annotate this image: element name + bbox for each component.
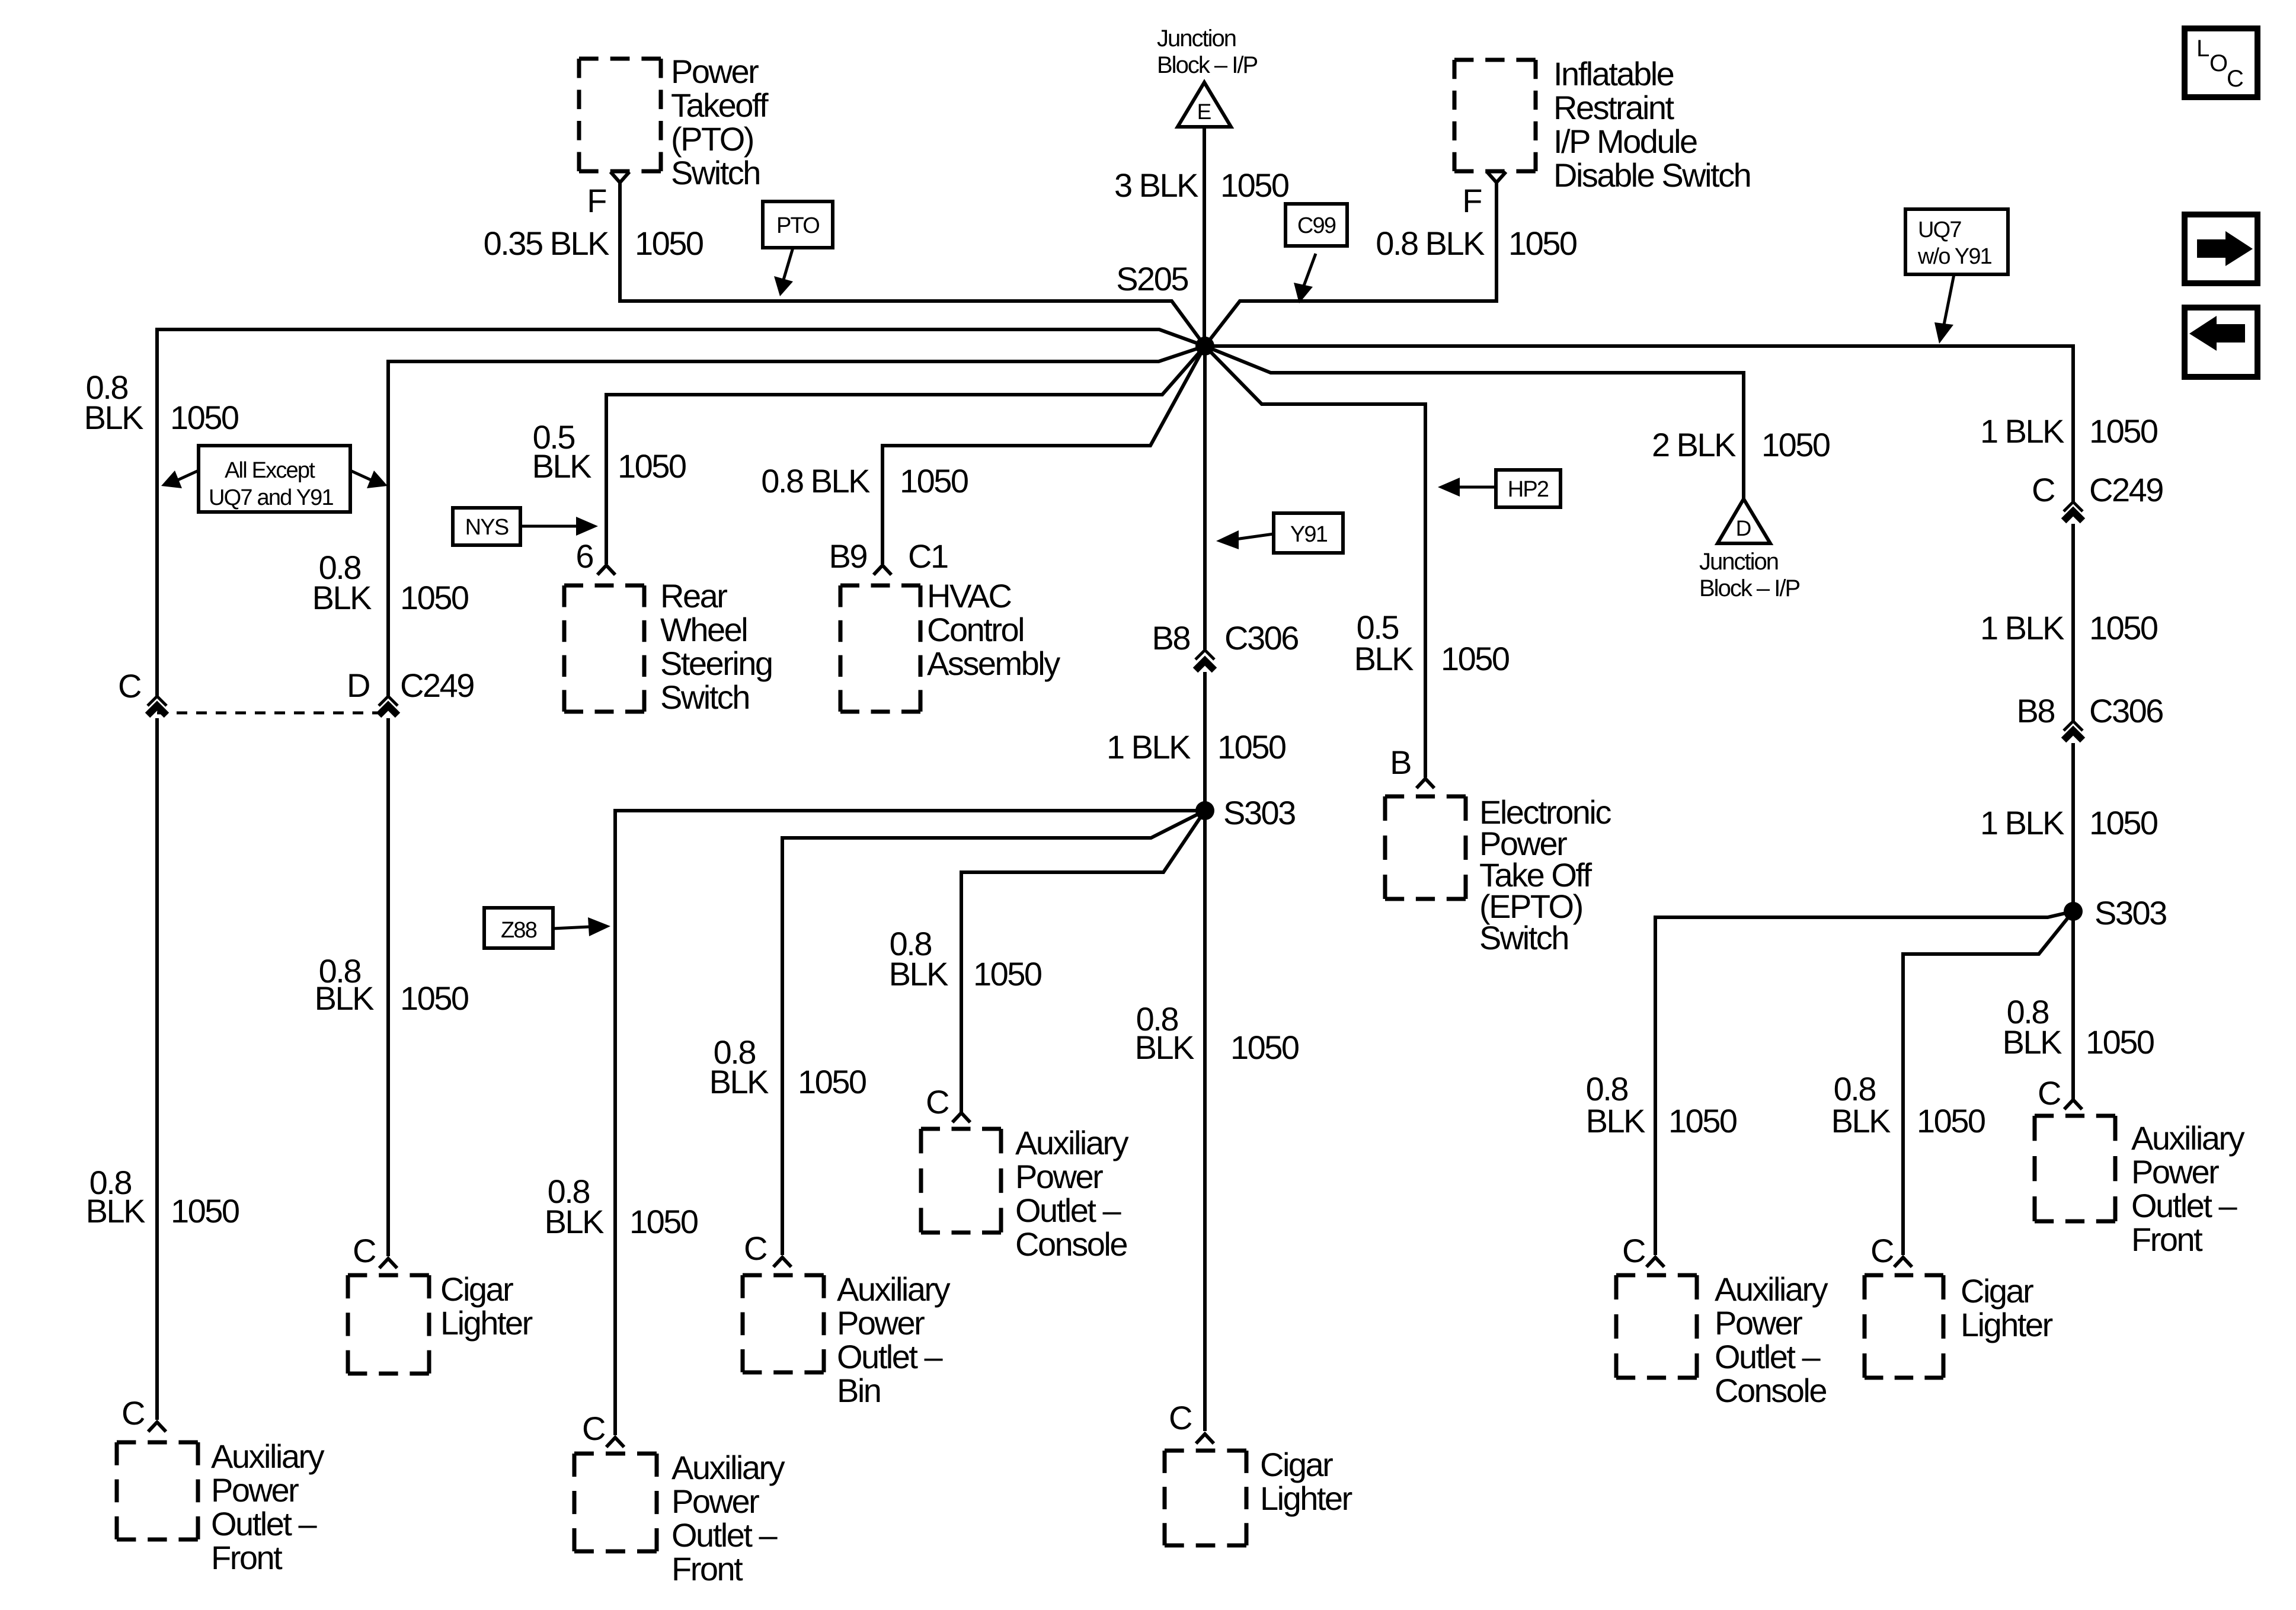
svg-text:L: L xyxy=(2196,36,2209,62)
svg-text:HP2: HP2 xyxy=(1508,477,1549,502)
svg-text:C: C xyxy=(2038,1074,2061,1112)
svg-text:Steering: Steering xyxy=(660,645,772,682)
wire C249-C down to aux power outlet front (0.8 BLK 1050) xyxy=(155,718,159,1420)
svg-text:D: D xyxy=(347,667,369,704)
wire C306 to S303 (1 BLK 1050, right) xyxy=(2071,743,2075,911)
svg-text:NYS: NYS xyxy=(465,515,509,540)
wire S303 right to cigar lighter (0.8 BLK 1050) xyxy=(1903,911,2073,1255)
svg-text:Inflatable: Inflatable xyxy=(1553,55,1674,92)
cigar lighter (right, dashed box) xyxy=(1865,1275,1943,1378)
auxiliary power outlet - bin (dashed box) xyxy=(743,1275,824,1372)
svg-text:Cigar: Cigar xyxy=(1260,1446,1333,1483)
label Z88 with arrow xyxy=(484,908,610,948)
svg-text:Power: Power xyxy=(837,1304,925,1342)
svg-text:C306: C306 xyxy=(2089,692,2163,729)
svg-text:C: C xyxy=(118,667,141,705)
svg-text:Auxiliary: Auxiliary xyxy=(671,1449,785,1486)
label PTO with arrow xyxy=(763,201,833,296)
wire S303 center to aux power outlet bin (0.8 BLK 1050) xyxy=(782,811,1205,1255)
svg-text:1050: 1050 xyxy=(635,225,703,262)
svg-text:Console: Console xyxy=(1015,1225,1127,1263)
junction block symbol D (triangle) xyxy=(1718,499,1770,543)
svg-text:S303: S303 xyxy=(2094,894,2166,932)
svg-text:B: B xyxy=(1390,744,1411,781)
svg-text:Bin: Bin xyxy=(837,1372,880,1409)
svg-text:C: C xyxy=(121,1394,145,1432)
svg-text:C249: C249 xyxy=(2089,471,2163,508)
svg-text:2 BLK: 2 BLK xyxy=(1652,426,1736,463)
wire S205 to connector C249 C (0.8 BLK 1050, far left) xyxy=(157,329,1205,696)
label HP2 with arrow xyxy=(1438,470,1560,507)
component label Auxiliary Power Outlet - Front (right) xyxy=(2131,1119,2245,1258)
connector chevron at HVAC control assembly xyxy=(874,565,891,575)
wire S303 down to cigar lighter (0.8 BLK 1050) xyxy=(1203,811,1207,1431)
svg-text:Auxiliary: Auxiliary xyxy=(837,1270,951,1308)
svg-text:BLK: BLK xyxy=(312,579,372,616)
svg-text:1050: 1050 xyxy=(2086,1023,2154,1061)
wire S205 down to connector C306 (1 BLK 1050) xyxy=(1203,346,1207,649)
value label 0.8 BLK (bin) xyxy=(709,1033,769,1100)
svg-text:O: O xyxy=(2209,50,2227,76)
svg-text:C99: C99 xyxy=(1297,213,1336,238)
connector chevron at EPTO switch xyxy=(1416,779,1434,788)
svg-text:Power: Power xyxy=(1715,1304,1802,1342)
svg-text:C: C xyxy=(582,1410,605,1447)
svg-text:Assembly: Assembly xyxy=(927,645,1060,682)
svg-text:Console: Console xyxy=(1715,1372,1826,1409)
svg-text:Switch: Switch xyxy=(1479,919,1568,956)
svg-text:Wheel: Wheel xyxy=(660,611,747,648)
svg-text:1050: 1050 xyxy=(629,1203,698,1240)
svg-text:C: C xyxy=(353,1232,376,1269)
svg-text:F: F xyxy=(1462,182,1481,219)
component label Auxiliary Power Outlet - Front (left) xyxy=(211,1438,325,1576)
svg-text:Power: Power xyxy=(1015,1158,1103,1195)
wire S205 to right column C249 (1 BLK 1050) xyxy=(1205,346,2073,502)
wire S205 to inflatable restraint disable switch (0.8 BLK 1050) xyxy=(1205,182,1496,346)
svg-text:w/o Y91: w/o Y91 xyxy=(1917,244,1992,269)
dashed link between C and D of C249 xyxy=(157,712,388,715)
svg-text:I/P Module: I/P Module xyxy=(1553,123,1697,160)
svg-text:Switch: Switch xyxy=(660,678,749,716)
svg-text:Switch: Switch xyxy=(671,154,760,191)
wire S205 to HVAC control assembly (0.8 BLK 1050) xyxy=(882,346,1205,564)
cigar lighter (left, dashed box) xyxy=(348,1275,429,1374)
svg-text:1050: 1050 xyxy=(973,955,1041,993)
value label 0.8 BLK (cigar right) xyxy=(1831,1070,1891,1140)
svg-text:Front: Front xyxy=(2131,1221,2203,1258)
component label Power Takeoff (PTO) Switch xyxy=(671,53,769,191)
svg-text:Outlet –: Outlet – xyxy=(1015,1192,1121,1229)
connector chevron at rear wheel steering switch xyxy=(597,565,615,575)
svg-text:Outlet –: Outlet – xyxy=(211,1505,317,1542)
svg-text:1050: 1050 xyxy=(1508,225,1576,262)
component label Inflatable Restraint I/P Module Disable Switch xyxy=(1553,55,1750,194)
svg-text:UQ7: UQ7 xyxy=(1918,217,1961,242)
svg-text:Power: Power xyxy=(2131,1153,2219,1190)
svg-text:Power: Power xyxy=(671,53,759,90)
svg-text:C: C xyxy=(926,1083,949,1121)
svg-text:Power: Power xyxy=(671,1483,759,1520)
wire S303 center to aux power outlet front (0.8 BLK 1050) xyxy=(615,811,1205,1435)
value label 0.8 BLK (console left) xyxy=(889,925,948,993)
svg-text:0.8 BLK: 0.8 BLK xyxy=(1376,225,1485,262)
component label Cigar Lighter (center) xyxy=(1260,1446,1352,1517)
wire E to S205 (vertical, 3 BLK 1050) xyxy=(1203,127,1206,346)
svg-text:BLK: BLK xyxy=(709,1063,769,1100)
svg-text:Rear: Rear xyxy=(660,577,727,614)
svg-text:UQ7 and Y91: UQ7 and Y91 xyxy=(209,485,333,510)
in-line connector C249 symbol (C side) xyxy=(148,696,167,715)
svg-text:B9: B9 xyxy=(829,537,867,575)
svg-text:BLK: BLK xyxy=(1135,1029,1194,1066)
svg-text:Lighter: Lighter xyxy=(1260,1480,1352,1517)
wire S205 to connector C249 D (0.8 BLK 1050, second left) xyxy=(388,346,1205,696)
component label Auxiliary Power Outlet - Front (mid) xyxy=(671,1449,785,1587)
svg-text:Auxiliary: Auxiliary xyxy=(1015,1124,1129,1161)
rear wheel steering switch (dashed box) xyxy=(564,585,644,712)
value label 0.8 BLK (far left) xyxy=(84,369,143,436)
svg-text:D: D xyxy=(1736,516,1752,540)
svg-text:BLK: BLK xyxy=(1831,1102,1891,1140)
label UQ7 w/o Y91 with arrow xyxy=(1905,209,2008,344)
svg-text:(PTO): (PTO) xyxy=(671,120,753,158)
svg-text:1050: 1050 xyxy=(170,399,238,436)
svg-text:BLK: BLK xyxy=(889,955,948,993)
label Junction Block - I/P (D) xyxy=(1699,549,1800,601)
svg-text:BLK: BLK xyxy=(315,980,374,1017)
junction block symbol E (triangle) xyxy=(1178,82,1231,127)
component label HVAC Control Assembly xyxy=(927,577,1060,682)
svg-text:1050: 1050 xyxy=(1917,1102,1985,1140)
svg-text:1050: 1050 xyxy=(1220,167,1288,204)
splice S303 (right) xyxy=(2064,902,2083,921)
svg-text:Block – I/P: Block – I/P xyxy=(1157,52,1258,78)
svg-text:1 BLK: 1 BLK xyxy=(1980,804,2064,841)
svg-text:1050: 1050 xyxy=(400,980,468,1017)
value label 0.8 BLK (aux front mid) xyxy=(545,1173,604,1240)
svg-text:Outlet –: Outlet – xyxy=(671,1516,778,1554)
electronic power take off EPTO switch (dashed box) xyxy=(1385,796,1466,899)
svg-text:Front: Front xyxy=(211,1539,283,1576)
value label 0.8 BLK (second left) xyxy=(312,549,372,616)
svg-text:3 BLK: 3 BLK xyxy=(1114,167,1198,204)
auxiliary power outlet - front (mid, dashed box) xyxy=(574,1454,657,1551)
svg-text:Junction: Junction xyxy=(1157,25,1236,52)
svg-text:1050: 1050 xyxy=(1230,1029,1299,1066)
connector chevron at aux power outlet front (right) xyxy=(2064,1100,2082,1109)
connector chevron at cigar lighter (center) xyxy=(1196,1434,1214,1443)
connector chevron at aux power outlet bin xyxy=(773,1257,791,1267)
value label 0.8 BLK (left lower) xyxy=(86,1164,145,1230)
connector chevron at aux power outlet console (right) xyxy=(1646,1257,1664,1267)
connector chevron at aux power outlet front (mid) xyxy=(606,1438,624,1447)
value label 0.8 BLK (console right) xyxy=(1586,1070,1645,1140)
label Y91 with arrow xyxy=(1216,513,1343,553)
svg-text:1 BLK: 1 BLK xyxy=(1107,728,1191,766)
svg-text:BLK: BLK xyxy=(545,1203,604,1240)
wire S205 to rear wheel steering switch (0.5 BLK 1050) xyxy=(606,346,1205,564)
svg-text:1050: 1050 xyxy=(1761,426,1830,463)
connector chevron at cigar lighter (right) xyxy=(1894,1257,1912,1267)
svg-text:Outlet –: Outlet – xyxy=(1715,1338,1821,1375)
value label 0.8 BLK (cigar left) xyxy=(315,952,374,1017)
svg-text:Auxiliary: Auxiliary xyxy=(211,1438,325,1475)
svg-text:Disable Switch: Disable Switch xyxy=(1553,156,1750,194)
svg-text:0.8 BLK: 0.8 BLK xyxy=(761,462,870,500)
svg-text:B8: B8 xyxy=(2017,692,2055,729)
value label 0.8 BLK xyxy=(1135,1000,1194,1066)
svg-text:Power: Power xyxy=(211,1471,299,1509)
svg-text:1050: 1050 xyxy=(618,447,686,485)
value label 0.5 BLK (EPTO) xyxy=(1354,609,1414,677)
wire C249-D down to cigar lighter (0.8 BLK 1050) xyxy=(386,718,390,1256)
svg-text:6: 6 xyxy=(575,537,593,575)
svg-text:1050: 1050 xyxy=(1217,728,1285,766)
svg-text:BLK: BLK xyxy=(1586,1102,1645,1140)
power takeoff PTO switch (dashed box) xyxy=(579,59,661,171)
svg-text:Outlet –: Outlet – xyxy=(2131,1187,2237,1224)
legend LOC box xyxy=(2185,28,2257,97)
svg-text:1 BLK: 1 BLK xyxy=(1980,412,2064,450)
svg-text:Auxiliary: Auxiliary xyxy=(1715,1270,1828,1308)
svg-text:C: C xyxy=(2032,471,2055,508)
svg-text:1050: 1050 xyxy=(1668,1102,1737,1140)
svg-text:1050: 1050 xyxy=(900,462,968,500)
svg-text:Auxiliary: Auxiliary xyxy=(2131,1119,2245,1157)
svg-text:C: C xyxy=(1169,1399,1192,1436)
connector chevron at aux power outlet front (left) xyxy=(148,1422,166,1432)
svg-text:Restraint: Restraint xyxy=(1553,89,1675,126)
auxiliary power outlet - console (right, dashed box) xyxy=(1616,1275,1697,1378)
svg-text:B8: B8 xyxy=(1152,619,1190,657)
svg-text:Lighter: Lighter xyxy=(440,1304,533,1342)
svg-text:C: C xyxy=(744,1230,767,1267)
connector F at inflatable restraint switch xyxy=(1487,172,1506,183)
svg-text:C306: C306 xyxy=(1224,619,1298,657)
svg-text:C: C xyxy=(2227,66,2243,92)
svg-text:1050: 1050 xyxy=(1441,640,1509,677)
svg-text:S205: S205 xyxy=(1116,260,1188,297)
svg-text:1050: 1050 xyxy=(2089,412,2157,450)
in-line connector C249 symbol (D side) xyxy=(379,696,398,715)
svg-text:E: E xyxy=(1197,100,1212,124)
svg-text:Cigar: Cigar xyxy=(1961,1272,2033,1310)
in-line connector C306 symbol (center) xyxy=(1195,650,1214,670)
legend arrow left box xyxy=(2185,308,2257,377)
label Junction Block - I/P (top) xyxy=(1157,25,1258,78)
svg-text:Control: Control xyxy=(927,611,1024,648)
svg-text:Outlet –: Outlet – xyxy=(837,1338,943,1375)
wire S205 to junction block D (2 BLK 1050) xyxy=(1205,346,1744,499)
svg-text:1050: 1050 xyxy=(171,1192,239,1230)
wire S205 to EPTO switch (0.5 BLK 1050) xyxy=(1205,346,1425,777)
connector F at PTO switch xyxy=(610,172,629,183)
component label Cigar Lighter (right) xyxy=(1961,1272,2053,1343)
svg-text:C: C xyxy=(1870,1232,1894,1269)
svg-text:1050: 1050 xyxy=(2089,609,2157,646)
svg-text:BLK: BLK xyxy=(86,1192,145,1230)
legend arrow right box xyxy=(2185,215,2257,283)
svg-text:1050: 1050 xyxy=(2089,804,2157,841)
HVAC control assembly (dashed box) xyxy=(840,585,920,712)
svg-text:C: C xyxy=(1622,1232,1645,1269)
label All Except UQ7 and Y91 with arrows xyxy=(161,446,388,512)
auxiliary power outlet - front (left, dashed box) xyxy=(117,1442,198,1539)
component label Auxiliary Power Outlet - Console (left) xyxy=(1015,1124,1129,1263)
label NYS with arrow xyxy=(453,508,598,545)
in-line connector C306 symbol (right) xyxy=(2064,721,2083,740)
component label Rear Wheel Steering Switch xyxy=(660,577,772,716)
svg-text:Cigar: Cigar xyxy=(440,1270,513,1308)
svg-text:1050: 1050 xyxy=(400,579,468,616)
svg-text:Takeoff: Takeoff xyxy=(671,87,769,124)
svg-text:Y91: Y91 xyxy=(1290,522,1328,547)
wire C249 to C306 (1 BLK 1050, right) xyxy=(2071,524,2075,721)
component label Electronic Power Take Off (EPTO) Switch xyxy=(1479,793,1611,956)
svg-text:Front: Front xyxy=(671,1550,743,1587)
connector chevron at cigar lighter (left) xyxy=(379,1259,397,1268)
auxiliary power outlet - front (right, dashed box) xyxy=(2035,1116,2115,1221)
svg-text:1050: 1050 xyxy=(798,1063,866,1100)
svg-text:S303: S303 xyxy=(1223,794,1295,831)
wire S303 right down to aux power outlet front (0.8 BLK 1050) xyxy=(2071,911,2075,1099)
svg-text:BLK: BLK xyxy=(2003,1023,2062,1061)
connector chevron at aux power outlet console (left) xyxy=(952,1113,970,1122)
svg-text:1 BLK: 1 BLK xyxy=(1980,609,2064,646)
component label Auxiliary Power Outlet - Console (right) xyxy=(1715,1270,1828,1409)
label C99 with arrow xyxy=(1285,204,1347,303)
cigar lighter (center, dashed box) xyxy=(1165,1451,1246,1545)
auxiliary power outlet - console (left, dashed box) xyxy=(921,1129,1001,1233)
svg-text:Lighter: Lighter xyxy=(1961,1306,2053,1343)
svg-text:0.35 BLK: 0.35 BLK xyxy=(484,225,610,262)
svg-text:BLK: BLK xyxy=(84,399,143,436)
svg-text:All Except: All Except xyxy=(225,458,315,483)
wire S303 center to aux power outlet console (0.8 BLK 1050) xyxy=(961,811,1205,1113)
svg-text:F: F xyxy=(587,182,606,219)
component label Cigar Lighter (left) xyxy=(440,1270,533,1342)
wire S205 to PTO switch (0.35 BLK 1050) xyxy=(620,182,1205,346)
svg-text:C1: C1 xyxy=(908,537,948,575)
svg-text:C249: C249 xyxy=(400,667,474,704)
value label 0.5 BLK xyxy=(532,418,591,485)
splice S303 (center) xyxy=(1195,801,1214,820)
svg-text:Junction: Junction xyxy=(1699,549,1778,575)
splice S205 xyxy=(1195,337,1214,356)
svg-text:HVAC: HVAC xyxy=(927,577,1011,614)
inflatable restraint I/P module disable switch (dashed box) xyxy=(1454,60,1536,171)
component label Auxiliary Power Outlet - Bin xyxy=(837,1270,951,1409)
svg-text:Block – I/P: Block – I/P xyxy=(1699,575,1800,601)
value label 0.8 BLK (front right) xyxy=(2003,993,2062,1061)
in-line connector C249 symbol (right) xyxy=(2064,502,2083,521)
svg-text:PTO: PTO xyxy=(776,213,819,238)
svg-text:BLK: BLK xyxy=(1354,640,1414,677)
wire S303 right to aux power outlet console (0.8 BLK 1050) xyxy=(1655,911,2073,1255)
svg-text:Z88: Z88 xyxy=(501,918,537,943)
wire C306 to S303 (1 BLK 1050) xyxy=(1203,672,1207,811)
svg-text:BLK: BLK xyxy=(532,447,591,485)
